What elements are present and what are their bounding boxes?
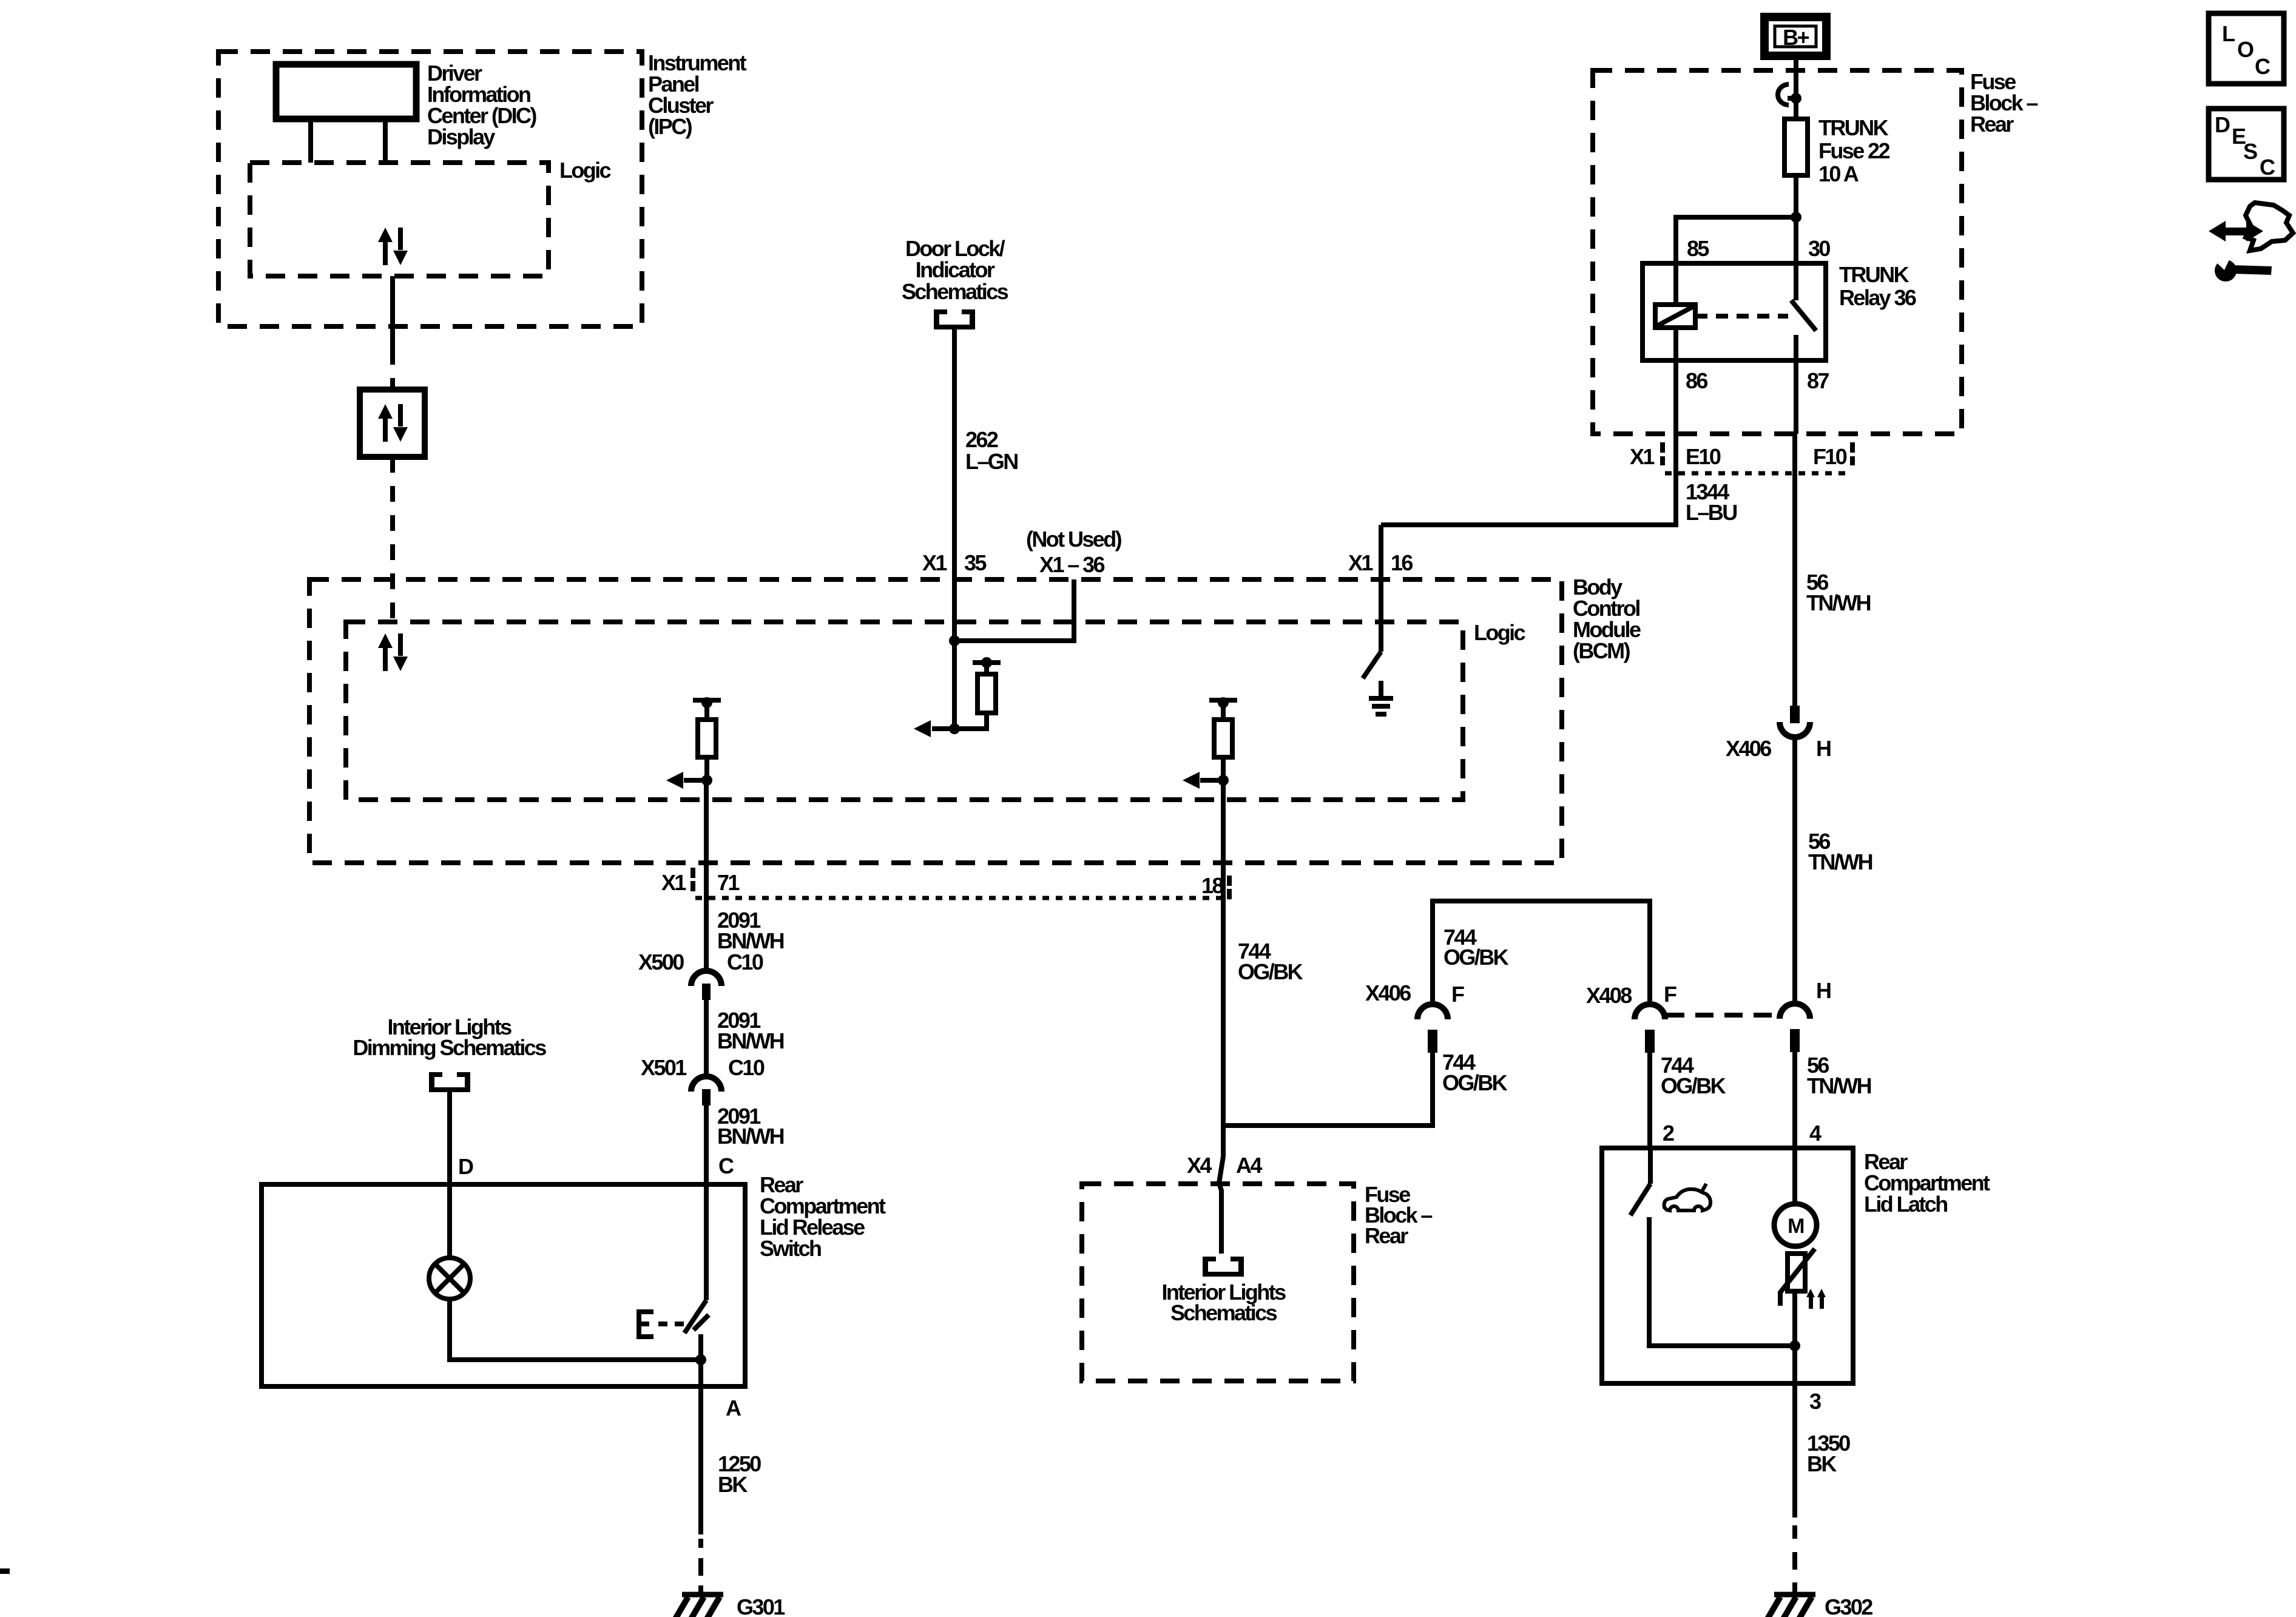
wire 1344 L-BU (E10 to BCM X1-16) xyxy=(1381,434,1676,525)
wire relay 86 stub xyxy=(1673,328,1678,434)
svg-text:10 A: 10 A xyxy=(1818,161,1859,186)
wire 56 TN/WH to latch pin 4 xyxy=(1792,1052,1797,1148)
wire 744 OG/BK (pin 18 down) xyxy=(1221,780,1226,1126)
wire 744 horizontal to X406 xyxy=(1223,1052,1433,1126)
X1 connector separator ticks xyxy=(690,868,695,878)
pull-up resistor with output driver (pin 18) xyxy=(1183,697,1237,789)
serial data arrows inside IPC logic xyxy=(378,228,408,265)
off-page connector stub (interior lights schematics) xyxy=(1203,1257,1244,1277)
BCM logic dashed box xyxy=(346,622,1463,800)
svg-text:D: D xyxy=(458,1154,473,1179)
svg-text:C: C xyxy=(2255,54,2271,79)
wire dashed to G301 xyxy=(698,1539,703,1548)
svg-text:M: M xyxy=(1788,1215,1804,1238)
svg-text:85: 85 xyxy=(1687,236,1709,261)
svg-text:C10: C10 xyxy=(728,1055,765,1080)
svg-text:Indicator: Indicator xyxy=(916,257,995,282)
wire IPC logic to IPC edge xyxy=(390,276,395,349)
svg-text:TN/WH: TN/WH xyxy=(1807,1073,1871,1098)
svg-text:X501: X501 xyxy=(641,1055,687,1080)
svg-text:Schematics: Schematics xyxy=(902,279,1008,304)
svg-text:X500: X500 xyxy=(638,950,684,974)
wire to X4-A4 xyxy=(1219,1126,1223,1254)
wire DIC leg right xyxy=(383,119,388,163)
signal arrow into logic xyxy=(932,726,955,731)
wire 2091 BN/WH (X500 to X501) xyxy=(704,1000,709,1074)
svg-text:Relay 36: Relay 36 xyxy=(1839,285,1916,310)
wire DIC leg left xyxy=(308,119,313,163)
ground (BCM internal) xyxy=(1369,696,1393,701)
release switch box xyxy=(262,1184,745,1386)
svg-text:C: C xyxy=(718,1153,734,1178)
connector X500 xyxy=(691,971,721,986)
node junction at logic input xyxy=(949,723,960,734)
svg-text:TRUNK: TRUNK xyxy=(1839,262,1909,287)
wire 744 up and over to X408 xyxy=(1433,901,1650,1001)
svg-text:F: F xyxy=(1451,982,1464,1007)
node junction X1-35/X1-36 xyxy=(949,635,960,646)
connector X406 cavity F xyxy=(1417,1004,1448,1053)
double-headed arrow icon xyxy=(2223,228,2249,235)
svg-text:Fuse 22: Fuse 22 xyxy=(1818,138,1889,163)
svg-text:Rear: Rear xyxy=(1970,112,2014,137)
svg-text:Logic: Logic xyxy=(559,158,611,183)
svg-text:F10: F10 xyxy=(1813,444,1847,469)
pull-up resistor with output driver (pin 71) xyxy=(666,697,721,789)
PTC thermal protector xyxy=(1788,1254,1805,1291)
IPC logic dashed box xyxy=(250,163,549,276)
off-page connector stub (dimming) xyxy=(429,1072,470,1092)
wire dashed to G302 xyxy=(1792,1525,1797,1539)
svg-text:Schematics: Schematics xyxy=(1170,1300,1277,1325)
svg-text:X1: X1 xyxy=(1630,444,1655,469)
wire 56 TN/WH (X406-H down) xyxy=(1792,739,1797,1001)
svg-text:E10: E10 xyxy=(1686,444,1721,469)
pull-up resistor R (X1-35 input) xyxy=(973,660,1001,665)
svg-text:262: 262 xyxy=(965,427,998,452)
svg-text:L–BU: L–BU xyxy=(1686,500,1737,525)
off-page connector stub (door lock) xyxy=(934,309,975,329)
svg-text:35: 35 xyxy=(964,550,987,575)
serial data link box xyxy=(360,390,425,457)
svg-text:Switch: Switch xyxy=(760,1236,821,1261)
svg-text:86: 86 xyxy=(1686,368,1707,393)
X1 connector dotted boundary xyxy=(695,896,1230,900)
relay contact blade xyxy=(1791,300,1816,331)
DIC display box U1 xyxy=(276,64,416,119)
connector X408 cavity F xyxy=(1635,1004,1665,1053)
svg-text:D: D xyxy=(2215,112,2230,137)
svg-text:Dimming Schematics: Dimming Schematics xyxy=(353,1035,546,1060)
ground G302 xyxy=(1768,1595,1815,1617)
node junction to relay coil feed xyxy=(1791,212,1801,223)
wire 2091 BN/WH (pin 71 to X500) xyxy=(704,780,709,968)
relay TRUNK Relay 36 box xyxy=(1643,263,1826,360)
wire X1-36 not used stub xyxy=(954,579,1074,641)
DESC box xyxy=(2209,109,2284,180)
svg-text:Logic: Logic xyxy=(1474,620,1525,645)
svg-text:Rear: Rear xyxy=(1365,1223,1408,1248)
svg-text:L–GN: L–GN xyxy=(965,449,1018,474)
svg-text:3: 3 xyxy=(1809,1389,1821,1414)
LOC box xyxy=(2209,13,2284,84)
wire to pin A xyxy=(698,1360,703,1534)
panel outline icon xyxy=(2246,203,2293,251)
connector X501 xyxy=(691,1076,721,1092)
svg-text:OG/BK: OG/BK xyxy=(1661,1073,1726,1098)
svg-text:X406: X406 xyxy=(1726,736,1771,761)
node fuse feed junction xyxy=(1791,93,1801,104)
svg-text:Display: Display xyxy=(427,124,495,149)
svg-text:BK: BK xyxy=(1807,1451,1837,1476)
svg-text:X4: X4 xyxy=(1187,1153,1212,1178)
svg-text:BN/WH: BN/WH xyxy=(717,1028,784,1053)
wire junction to pin 85 xyxy=(1676,217,1796,305)
wire 262 L-GN xyxy=(952,329,957,641)
svg-text:TN/WH: TN/WH xyxy=(1806,590,1871,615)
fuse TRUNK Fuse 22 10A xyxy=(1784,119,1808,175)
double arrows (self-reset) xyxy=(1809,1296,1813,1309)
ground G301 xyxy=(675,1595,723,1617)
serial data arrows inside BCM logic xyxy=(378,633,408,671)
svg-text:X406: X406 xyxy=(1365,981,1411,1005)
wire pin 4 to motor xyxy=(1792,1148,1797,1204)
wire to pin 3 xyxy=(1792,1383,1797,1517)
svg-text:OG/BK: OG/BK xyxy=(1442,1070,1508,1095)
svg-text:BN/WH: BN/WH xyxy=(717,1124,784,1149)
relay coil xyxy=(1655,305,1695,328)
svg-text:H: H xyxy=(1816,978,1831,1003)
svg-text:Lid Latch: Lid Latch xyxy=(1864,1192,1947,1217)
svg-text:H: H xyxy=(1816,736,1831,761)
connector X406 cavity H (in-line) xyxy=(1790,706,1800,723)
svg-text:71: 71 xyxy=(717,870,740,895)
manual actuation symbol E xyxy=(639,1309,653,1339)
wire fuse to relay junction xyxy=(1794,175,1798,300)
switch blade (release switch) xyxy=(684,1300,706,1333)
svg-text:S: S xyxy=(2243,139,2257,164)
svg-text:BK: BK xyxy=(718,1472,748,1497)
relay coil to contact dashed link xyxy=(1695,314,1788,319)
fuse block rear (upper) dashed box xyxy=(1593,70,1962,434)
wire junction to logic input xyxy=(952,641,957,729)
svg-text:X1: X1 xyxy=(661,870,686,895)
svg-text:X1: X1 xyxy=(1348,550,1373,575)
wire dimming to pin D xyxy=(447,1092,452,1258)
svg-text:(Not Used): (Not Used) xyxy=(1026,527,1122,552)
svg-text:18: 18 xyxy=(1201,873,1223,898)
svg-text:O: O xyxy=(2237,37,2254,62)
svg-text:OG/BK: OG/BK xyxy=(1443,945,1509,970)
connector dotted boundary E10/F10 xyxy=(1665,471,1848,476)
car icon xyxy=(1664,1189,1710,1210)
wire motor to common junction xyxy=(1792,1291,1797,1383)
svg-text:A4: A4 xyxy=(1236,1153,1262,1178)
wrench icon xyxy=(2231,265,2272,275)
svg-text:OG/BK: OG/BK xyxy=(1238,959,1303,984)
svg-text:L: L xyxy=(2222,21,2235,46)
wire dashed IPC to data box xyxy=(390,349,395,390)
connector separator ticks xyxy=(1660,442,1665,453)
connector cavity H (lower) xyxy=(1780,1004,1810,1052)
edge artifact mark xyxy=(0,1568,10,1574)
svg-text:G302: G302 xyxy=(1825,1595,1872,1617)
svg-text:C: C xyxy=(2260,155,2275,180)
svg-text:2: 2 xyxy=(1663,1121,1674,1146)
wire 56 TN/WH (F10 down) xyxy=(1792,434,1797,706)
svg-text:F: F xyxy=(1664,982,1676,1007)
IPC module dashed box xyxy=(218,52,642,326)
svg-text:X408: X408 xyxy=(1586,983,1632,1008)
wire 2091 BN/WH (X501 to switch pin C) xyxy=(704,1106,709,1300)
BCM module dashed box xyxy=(309,579,1562,863)
fuse clip symbol xyxy=(1778,84,1789,105)
lamp (illumination bulb) xyxy=(429,1258,470,1299)
node switch common junction xyxy=(695,1354,706,1365)
svg-text:X1: X1 xyxy=(922,550,947,575)
svg-text:TRUNK: TRUNK xyxy=(1818,115,1889,140)
svg-text:X1 – 36: X1 – 36 xyxy=(1039,552,1104,577)
svg-text:(IPC): (IPC) xyxy=(648,114,692,139)
fuse block rear (lower) dashed box xyxy=(1082,1184,1354,1381)
svg-text:TN/WH: TN/WH xyxy=(1808,849,1872,874)
svg-text:4: 4 xyxy=(1809,1121,1822,1146)
svg-text:87: 87 xyxy=(1807,368,1829,393)
switch to ground (X1-16 input) xyxy=(1379,525,1383,652)
svg-text:16: 16 xyxy=(1391,550,1413,575)
battery B+ symbol xyxy=(1764,17,1826,56)
connector boundary dashed X408 to H xyxy=(1666,1013,1778,1018)
motor M xyxy=(1774,1204,1817,1246)
svg-text:(BCM): (BCM) xyxy=(1573,638,1630,663)
svg-text:G301: G301 xyxy=(737,1595,785,1617)
latch ajar switch xyxy=(1648,1148,1653,1184)
wire lamp to common xyxy=(450,1299,701,1360)
svg-text:C10: C10 xyxy=(727,950,763,974)
wire dashed data box to BCM xyxy=(390,457,395,622)
latch box xyxy=(1602,1148,1853,1383)
svg-text:A: A xyxy=(726,1396,741,1420)
wire 744 OG/BK to latch pin 2 xyxy=(1647,1052,1652,1148)
wire relay 87 stub xyxy=(1794,335,1798,434)
svg-text:B+: B+ xyxy=(1783,25,1809,50)
svg-text:30: 30 xyxy=(1808,236,1830,261)
node latch common junction xyxy=(1789,1340,1800,1351)
wire B+ to fuse xyxy=(1794,56,1798,119)
